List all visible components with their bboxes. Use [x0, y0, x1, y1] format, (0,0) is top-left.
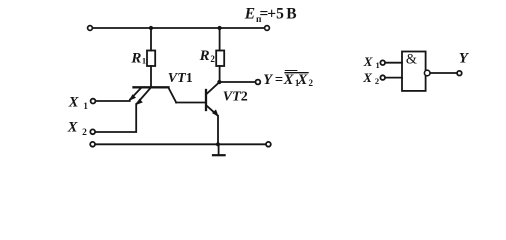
- label Ep = +5 V: [244, 5, 297, 25]
- terminal bottom-left open circle: [90, 142, 95, 147]
- svg-text:VT2: VT2: [223, 90, 248, 105]
- wire bottom ground rail: [95, 143, 266, 145]
- wire X1 input: [96, 100, 130, 102]
- node output junction Y: [217, 80, 221, 84]
- svg-text:X2: X2: [67, 120, 87, 139]
- node junction emitter/ground rail: [216, 142, 220, 146]
- gate input terminal X1: [380, 60, 385, 65]
- transistor VT1 emitter 1: [130, 89, 141, 100]
- svg-text:X1: X1: [68, 95, 89, 111]
- wire R2 lower lead to output node: [219, 66, 221, 82]
- svg-text:R1: R1: [130, 50, 146, 66]
- gate output terminal: [457, 71, 462, 76]
- resistor R2: [216, 51, 224, 67]
- terminal top-right open circle Ep: [265, 26, 270, 31]
- label Y = X1bar X2bar: [263, 71, 313, 89]
- gate box U1: [402, 52, 426, 91]
- svg-text:X1: X1: [363, 54, 380, 70]
- svg-text:R2: R2: [199, 48, 216, 64]
- gate inversion bubble: [424, 70, 430, 76]
- wire VT1 collector to VT2 base: [176, 102, 205, 104]
- node junction R1/top rail: [149, 26, 153, 30]
- ground symbol: [218, 144, 220, 155]
- wire VT2 emitter to ground rail: [217, 116, 219, 144]
- logic gate symbol: [380, 52, 461, 91]
- gate input wire X1: [385, 62, 402, 64]
- wire emitter2 vertical to X2: [95, 104, 136, 132]
- transistor VT1 collector diagonal: [169, 88, 177, 103]
- terminal top-left open circle: [88, 26, 93, 31]
- transistor VT1 emitter 2: [137, 89, 150, 104]
- wire output Y: [222, 81, 256, 83]
- node junction R2/top rail: [218, 26, 222, 30]
- wire R1 upper lead: [150, 28, 152, 51]
- terminal X2 open circle: [90, 129, 95, 134]
- svg-text:X2: X2: [362, 70, 379, 86]
- svg-text:Y=X1X2: Y=X1X2: [263, 72, 313, 88]
- wire top power rail: [92, 27, 264, 29]
- resistor R1: [147, 51, 155, 67]
- transistor VT1 base bar: [134, 86, 169, 88]
- terminal Y open circle: [256, 80, 261, 85]
- svg-text:Eп=+5В: Eп=+5В: [244, 5, 297, 25]
- transistor VT2 emitter diagonal: [207, 106, 218, 116]
- wire R1 lower lead to VT1 base: [150, 66, 152, 87]
- gate input terminal X2: [380, 75, 385, 80]
- svg-text:&: &: [406, 52, 417, 68]
- svg-text:VT1: VT1: [168, 71, 193, 86]
- transistor VT2 collector diagonal: [207, 82, 220, 94]
- transistor VT2 base bar: [205, 90, 207, 110]
- terminal X1 open circle: [91, 99, 96, 104]
- svg-text:Y: Y: [459, 51, 470, 67]
- wire R2 upper lead: [219, 28, 221, 51]
- gate output wire: [431, 72, 457, 74]
- gate input wire X2: [385, 77, 402, 79]
- terminal bottom-right open circle: [266, 142, 271, 147]
